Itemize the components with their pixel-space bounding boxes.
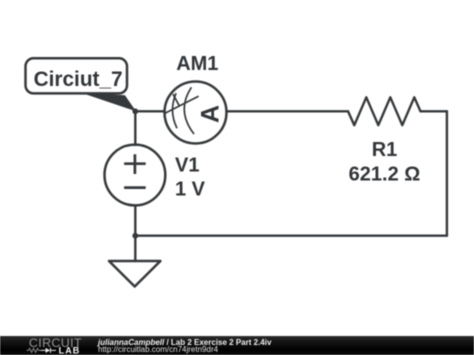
voltage source V1 circle — [104, 145, 165, 206]
callout tail — [80, 92, 136, 111]
svg-text:1 V: 1 V — [175, 178, 206, 200]
callout box Circiut_7 — [26, 58, 128, 93]
credit line 1 — [98, 339, 271, 347]
svg-text:LAB: LAB — [59, 346, 81, 355]
resistor R1 zigzag — [348, 97, 421, 125]
svg-text:V1: V1 — [175, 154, 199, 176]
wire resistor to top-right corner — [421, 110, 447, 112]
logo mini diode — [46, 348, 51, 353]
footer bar — [0, 336, 474, 355]
wire node A to V1 top — [134, 111, 136, 145]
svg-text:R1: R1 — [372, 139, 398, 161]
ammeter AM1 circle — [165, 82, 227, 144]
svg-text:Circiut_7: Circiut_7 — [34, 68, 123, 91]
svg-text:A: A — [196, 105, 224, 123]
svg-text:621.2 Ω: 621.2 Ω — [349, 164, 421, 186]
ammeter needle — [165, 97, 199, 114]
node B junction dot — [132, 233, 138, 239]
node A junction dot — [132, 108, 138, 114]
wire right vertical — [446, 111, 448, 235]
ammeter meter arc small — [173, 94, 177, 128]
ammeter needle tick — [173, 95, 179, 106]
V1 minus sign — [124, 186, 146, 189]
circuitlab logo — [26, 336, 86, 355]
wire node B to ground — [134, 236, 136, 261]
logo mini resistor — [27, 348, 41, 352]
wire node A to ammeter — [135, 110, 164, 112]
ammeter meter arc large — [184, 88, 193, 134]
ground symbol — [109, 261, 160, 287]
credit line 2 — [98, 346, 218, 354]
svg-text:AM1: AM1 — [176, 53, 218, 75]
wire V1 bottom to node B — [134, 205, 136, 235]
wire bottom horizontal — [135, 234, 447, 236]
V1 plus sign — [124, 154, 146, 174]
wire ammeter to resistor R1 — [227, 110, 349, 112]
